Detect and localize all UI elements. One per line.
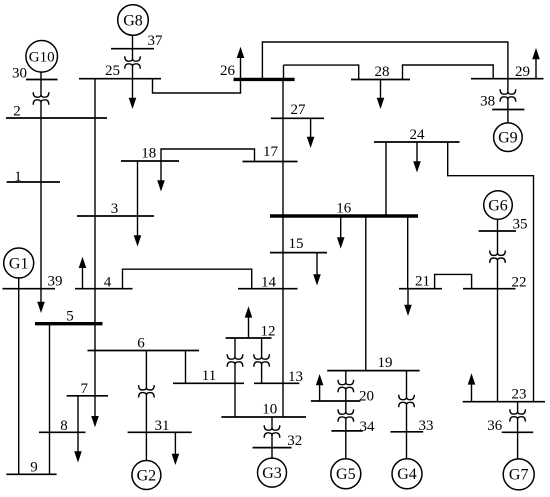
svg-text:36: 36 xyxy=(487,418,503,434)
wire transformer to bus 31 xyxy=(145,395,147,433)
load arrow bus 16 xyxy=(337,216,345,249)
wire line 21-22 xyxy=(435,274,472,288)
wire line 16-21 xyxy=(407,216,409,289)
bus 9 xyxy=(6,459,56,475)
load arrow bus 26 (up) xyxy=(237,47,245,80)
transformer 19-33 (G4 unit) xyxy=(399,395,415,407)
svg-text:5: 5 xyxy=(66,309,74,325)
wire bus 20 to transformer 20-34 xyxy=(345,401,347,412)
wire transformer to bus 32 xyxy=(271,435,273,448)
transformer 10-32 (G3 unit) xyxy=(264,425,280,437)
load arrow bus 7 xyxy=(91,396,99,428)
svg-text:8: 8 xyxy=(60,418,68,434)
wire bus 12 to transformer 12-13 xyxy=(261,338,263,357)
wire line 23-24 xyxy=(448,142,534,402)
svg-text:4: 4 xyxy=(104,275,112,291)
svg-text:27: 27 xyxy=(291,102,307,118)
bus 21 xyxy=(399,274,442,290)
load arrow bus 23 (up) xyxy=(468,373,476,401)
svg-text:29: 29 xyxy=(515,64,530,80)
wire bus 38 to G9 xyxy=(507,110,509,123)
bus 16 xyxy=(270,201,418,217)
wire bus 35 to transformer G6 xyxy=(497,231,499,253)
bus 10 xyxy=(221,402,306,418)
wire line 6-11 xyxy=(185,351,187,384)
svg-text:12: 12 xyxy=(261,324,276,340)
generator G9 xyxy=(494,123,523,152)
bus 19 xyxy=(327,355,419,371)
generator G10 xyxy=(26,41,58,73)
wire line 7-8 xyxy=(77,396,79,433)
wire bus 29 to transformer G9 xyxy=(507,79,509,92)
transformer 6-31 (G2 unit) xyxy=(139,385,155,397)
generator G7 xyxy=(503,459,534,490)
svg-text:25: 25 xyxy=(105,63,120,79)
wire bus 33 to G4 xyxy=(406,432,408,459)
wire bus 31 to G2 xyxy=(145,432,147,460)
wire transformer to bus 22 xyxy=(497,260,499,289)
svg-text:G7: G7 xyxy=(509,467,529,484)
generator G6 xyxy=(484,191,513,220)
bus 14 xyxy=(238,275,298,291)
bus 25 xyxy=(79,63,161,79)
svg-text:G5: G5 xyxy=(336,466,356,483)
bus 27 xyxy=(271,102,324,118)
svg-text:17: 17 xyxy=(263,144,279,160)
wire bus 12 to transformer 12-11 xyxy=(234,338,236,357)
svg-text:30: 30 xyxy=(12,66,27,82)
bus 2 xyxy=(6,104,107,120)
bus 29 xyxy=(471,64,544,80)
wire transformer to bus 33 xyxy=(406,405,408,432)
svg-text:24: 24 xyxy=(410,127,426,143)
bus 24 xyxy=(374,127,460,143)
wire line 17-18 xyxy=(161,149,255,162)
bus 33 xyxy=(391,418,434,434)
svg-text:9: 9 xyxy=(30,459,38,475)
wire bus 30 to transformer xyxy=(40,80,42,96)
bus 35 xyxy=(479,217,528,233)
bus 5 xyxy=(35,309,103,325)
wire G8 to bus 37 xyxy=(132,35,134,48)
wire transformer to bus 20 xyxy=(345,390,347,402)
wire bus 37 to transformer xyxy=(132,49,134,59)
svg-text:20: 20 xyxy=(359,388,374,404)
wire transformer to bus 13 xyxy=(261,364,263,383)
transformer 12-13 xyxy=(254,354,270,366)
bus 31 xyxy=(128,418,192,434)
wire bus 34 to G5 xyxy=(345,431,347,459)
svg-text:1: 1 xyxy=(14,169,22,185)
svg-text:13: 13 xyxy=(288,369,303,385)
svg-text:2: 2 xyxy=(13,104,21,120)
wire bus 36 to G7 xyxy=(517,432,519,459)
svg-text:6: 6 xyxy=(137,336,145,352)
transformer 12-11 xyxy=(227,354,243,366)
wire bus 23 to transformer G7 xyxy=(517,402,519,412)
svg-text:21: 21 xyxy=(415,274,430,290)
bus 26 xyxy=(220,63,295,80)
bus 1 xyxy=(7,169,60,185)
wire line 26-29 top xyxy=(262,42,508,79)
bus 8 xyxy=(39,418,86,434)
bus 39 xyxy=(3,274,63,290)
svg-text:18: 18 xyxy=(141,146,156,162)
wire line 1-2 xyxy=(40,118,42,182)
svg-text:22: 22 xyxy=(512,275,527,291)
bus 15 xyxy=(270,236,327,253)
bus 22 xyxy=(463,275,527,291)
svg-text:G9: G9 xyxy=(498,129,518,146)
transformer 35-22 (G6 unit) xyxy=(490,251,506,263)
svg-text:34: 34 xyxy=(360,419,376,435)
svg-text:G2: G2 xyxy=(137,467,157,484)
bus 34 xyxy=(331,419,375,435)
svg-text:39: 39 xyxy=(48,274,63,290)
transformer 23-36 (G7 unit) xyxy=(510,409,526,421)
bus 3 xyxy=(77,201,154,217)
wire transformer to bus 38 xyxy=(507,99,509,110)
load arrow bus 18 xyxy=(157,161,165,192)
bus 38 xyxy=(480,94,524,110)
wire line 25-26 xyxy=(153,79,241,93)
svg-text:31: 31 xyxy=(155,418,170,434)
load arrow bus 39 xyxy=(37,289,45,313)
wire line 1-39 xyxy=(40,182,42,289)
generator G5 xyxy=(331,459,361,489)
wire transformer to bus 34 xyxy=(345,419,347,431)
wire line 16-19 xyxy=(365,216,367,371)
generator G4 xyxy=(392,459,422,489)
svg-text:G6: G6 xyxy=(488,197,508,214)
bus 20 xyxy=(311,388,374,404)
svg-text:28: 28 xyxy=(375,64,390,80)
load arrow bus 20 (up) xyxy=(316,374,324,401)
load arrow bus 28 xyxy=(377,80,385,110)
svg-text:3: 3 xyxy=(111,201,119,217)
svg-text:11: 11 xyxy=(202,368,216,384)
load arrow bus 15 xyxy=(313,253,321,286)
load arrow bus 4 (up) xyxy=(79,257,87,289)
svg-text:32: 32 xyxy=(287,433,302,449)
generator G1 xyxy=(4,248,34,278)
bus 6 xyxy=(88,336,200,352)
wire G10 to bus 30 xyxy=(40,72,42,79)
wire line 5-8 and 8-9 xyxy=(49,324,51,475)
bus 13 xyxy=(254,369,303,385)
wire line 26-28 top xyxy=(284,65,359,79)
generator G3 xyxy=(258,458,287,487)
wire transformer to bus 25 xyxy=(132,66,134,79)
svg-text:19: 19 xyxy=(378,355,393,371)
wire bus 10 to transformer G3 xyxy=(271,417,273,428)
load arrow bus 31 xyxy=(172,432,180,465)
wire G1 to bus 39 and line 9-39 xyxy=(18,278,20,474)
svg-text:16: 16 xyxy=(336,201,352,217)
transformer 37-25 (G8 unit) xyxy=(125,56,141,68)
bus 36 xyxy=(487,418,533,434)
wire line 26-27, 17-27, 16-17, 15-16, 14-15, 13-14, 10-13 xyxy=(282,79,284,417)
bus 17 xyxy=(243,144,298,162)
svg-text:G4: G4 xyxy=(397,466,417,483)
svg-text:38: 38 xyxy=(480,94,495,110)
transformer 30-2 (G10 unit) xyxy=(33,92,49,104)
load arrow bus 8 xyxy=(74,432,82,462)
generator G2 xyxy=(132,461,161,490)
bus 37 xyxy=(111,33,163,49)
load arrow bus 21 xyxy=(404,289,412,316)
bus 28 xyxy=(351,64,410,80)
svg-text:G8: G8 xyxy=(123,12,143,29)
wire G6 to bus 35 xyxy=(497,219,499,231)
bus 12 xyxy=(226,324,276,340)
wire line 22-23 xyxy=(497,289,499,402)
wire bus 19 to transformer 19-33 xyxy=(406,371,408,398)
svg-text:G3: G3 xyxy=(262,465,282,482)
bus 18 xyxy=(121,146,179,162)
load arrow bus 3 xyxy=(134,216,142,247)
wire line 28-29 xyxy=(403,65,494,80)
wire transformer to bus 2 xyxy=(40,102,42,118)
load arrow bus 29 (up) xyxy=(532,48,540,79)
transformer 29-38 (G9 unit) xyxy=(500,89,516,101)
bus 4 xyxy=(75,275,133,291)
svg-text:15: 15 xyxy=(289,236,304,252)
wire line 4-14 xyxy=(123,269,252,289)
transformer 19-20 xyxy=(338,380,354,392)
generator G8 xyxy=(118,5,149,36)
wire bus 19 to transformer 19-20 xyxy=(345,371,347,383)
wire bus 6 to transformer G2 xyxy=(145,351,147,388)
bus 30 xyxy=(12,66,58,82)
svg-text:G1: G1 xyxy=(9,255,29,272)
svg-text:14: 14 xyxy=(261,275,277,291)
svg-text:G10: G10 xyxy=(29,49,55,65)
load arrow bus 12 (up) xyxy=(245,306,253,338)
svg-text:7: 7 xyxy=(80,381,88,397)
svg-text:10: 10 xyxy=(262,402,277,418)
bus 11 xyxy=(173,368,244,384)
bus 7 xyxy=(67,381,108,397)
wire bus 32 to G3 xyxy=(271,448,273,459)
bus 32 xyxy=(253,433,303,449)
load arrow bus 27 xyxy=(307,118,315,148)
wire line 16-24 xyxy=(385,142,387,216)
load arrow bus 24 xyxy=(413,142,421,173)
wire transformer to bus 36 xyxy=(517,419,519,432)
wire line 26-28 xyxy=(283,65,285,79)
bus 23 xyxy=(463,387,545,403)
svg-text:33: 33 xyxy=(419,418,434,434)
svg-text:37: 37 xyxy=(148,33,164,49)
load arrow bus 25 xyxy=(129,79,137,109)
wire transformer to bus 11 and line 10-11 xyxy=(234,364,236,417)
wire line 2-25, 2-3, 3-4, 4-5, 5-6, 6-7 xyxy=(94,79,96,396)
transformer 20-34 (G5 unit) xyxy=(338,409,354,421)
wire line 3-18 xyxy=(137,161,139,216)
svg-text:23: 23 xyxy=(512,387,527,403)
svg-text:35: 35 xyxy=(513,217,528,233)
svg-text:26: 26 xyxy=(220,63,236,79)
